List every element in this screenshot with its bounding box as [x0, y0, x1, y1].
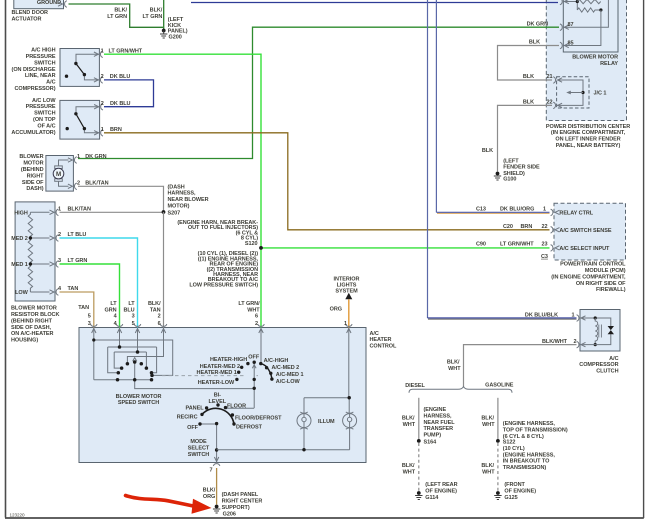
relay coil wire — [563, 2, 577, 11]
control pin ORG — [346, 324, 353, 333]
A/C high pressure switch U-HP box — [60, 49, 99, 87]
svg-text:(ENGINE: (ENGINE — [424, 407, 447, 413]
svg-text:1: 1 — [58, 206, 61, 212]
svg-text:HIGH: HIGH — [14, 210, 28, 216]
resistor block pin number and wire labels — [58, 206, 91, 212]
wire LT GRN resistor MED1 to control — [60, 264, 120, 328]
svg-text:(DASH: (DASH — [168, 184, 185, 190]
svg-text:FIREWALL): FIREWALL) — [596, 287, 626, 293]
node S120 splice — [245, 241, 263, 250]
svg-text:C3: C3 — [541, 254, 548, 260]
svg-text:SPEED SWITCH: SPEED SWITCH — [118, 400, 159, 406]
svg-text:WHT: WHT — [403, 422, 416, 428]
wire ORG interior lights to control — [348, 299, 350, 327]
svg-text:A/C SELECT INPUT: A/C SELECT INPUT — [559, 246, 610, 252]
lamp E2 (right illumination) — [343, 412, 357, 429]
wire LT GRN/WHT from A/C high pressure switch to S120 and control — [104, 54, 261, 327]
lamp bottom rail — [217, 428, 350, 450]
svg-text:LOW: LOW — [15, 290, 29, 296]
svg-text:BI-: BI- — [214, 393, 221, 399]
wire labels C20 BRN 22 — [503, 224, 548, 230]
svg-text:(ENGINE HARNESS,: (ENGINE HARNESS, — [503, 452, 556, 458]
svg-text:87: 87 — [568, 22, 574, 28]
svg-text:A/C HIGH: A/C HIGH — [31, 48, 55, 54]
svg-text:TAN: TAN — [68, 286, 79, 292]
wire BLK relay 85 to J/C1 pin 21 — [498, 46, 560, 81]
svg-text:LT BLU: LT BLU — [68, 232, 87, 238]
svg-text:GROUND: GROUND — [37, 0, 61, 6]
svg-text:BLK/: BLK/ — [447, 360, 460, 366]
wire labels C13 DK BLU/ORG 1 — [476, 207, 546, 213]
ground G206 — [213, 492, 262, 517]
wire BLK/WHT dashed S164 to G114 — [418, 443, 420, 492]
low switch stationary contact — [66, 127, 69, 130]
J/C1 pin 21 — [553, 77, 562, 84]
svg-text:MODULE (PCM): MODULE (PCM) — [585, 268, 626, 274]
motor pin 1 — [68, 157, 77, 164]
svg-text:(LEFT REAR: (LEFT REAR — [425, 482, 457, 488]
svg-text:G206: G206 — [223, 511, 236, 517]
svg-text:C13: C13 — [476, 207, 486, 213]
blower motor relay box — [563, 0, 618, 67]
wire label DK BLU/BLK — [525, 312, 575, 318]
wire DK BLU feed to blower motor relay (top) — [191, 2, 558, 4]
svg-text:RELAY CTRL: RELAY CTRL — [559, 211, 593, 217]
wire label BLK/WHT gasoline upper — [481, 416, 495, 428]
svg-text:6: 6 — [158, 321, 161, 327]
lamp E1 (left illumination) — [297, 412, 311, 429]
svg-text:LT GRN: LT GRN — [68, 258, 88, 264]
wire label BLK/WHT diesel lower — [402, 463, 416, 475]
svg-text:LT GRN/: LT GRN/ — [238, 301, 260, 307]
wire BLK/WHT compressor clutch to split — [464, 345, 577, 387]
svg-text:2: 2 — [77, 181, 80, 187]
svg-text:(BEHIND: (BEHIND — [21, 167, 44, 173]
svg-text:A/C SWITCH SENSE: A/C SWITCH SENSE — [559, 228, 611, 234]
svg-text:(LEFT: (LEFT — [503, 158, 519, 164]
relay pin (coil feed, top) — [560, 0, 569, 5]
svg-text:1: 1 — [101, 48, 104, 54]
svg-text:LT GRN/WHT: LT GRN/WHT — [500, 242, 534, 248]
svg-text:M: M — [56, 171, 61, 178]
resistor R-high-med2 — [28, 212, 32, 238]
control pin LT BLU — [134, 324, 141, 333]
svg-text:RELAY: RELAY — [600, 61, 618, 67]
svg-text:23: 23 — [542, 242, 548, 248]
svg-text:ORG: ORG — [203, 494, 215, 500]
ground G125 — [494, 482, 536, 501]
wire DK GRN relay 87 to blower motor — [78, 27, 559, 158]
svg-text:BLK/WHT: BLK/WHT — [542, 339, 568, 345]
svg-text:BLOWER: BLOWER — [19, 154, 43, 160]
power distribution center dashed box — [546, 0, 630, 149]
motor pin 2 — [68, 183, 77, 190]
control pin 7 (bottom) — [213, 457, 220, 466]
svg-text:ON A/C-HEATER: ON A/C-HEATER — [11, 331, 54, 337]
speed switch wiper arrow — [133, 358, 137, 362]
svg-text:BLK/: BLK/ — [481, 416, 494, 422]
wire BRN from low pressure switch to PCM — [104, 133, 550, 230]
svg-text:2: 2 — [101, 101, 104, 107]
blower motor resistor block box — [15, 202, 55, 301]
svg-text:ACTUATOR: ACTUATOR — [12, 17, 42, 23]
svg-text:GASOLINE: GASOLINE — [485, 382, 514, 388]
svg-text:2: 2 — [101, 74, 104, 80]
J/C 1 junction connector dashed box — [557, 77, 607, 108]
svg-text:2: 2 — [255, 321, 258, 327]
node relay R junction — [599, 8, 602, 11]
wire relay to pin 85 — [563, 10, 601, 46]
svg-text:BRN: BRN — [521, 224, 533, 230]
S120 harness note — [177, 220, 258, 288]
svg-text:5: 5 — [88, 313, 91, 319]
svg-text:SIDE OF DASH,: SIDE OF DASH, — [11, 325, 52, 331]
page frame right border — [643, 0, 645, 518]
svg-text:LT: LT — [110, 301, 117, 307]
rotary contact dots — [235, 361, 273, 390]
svg-text:DK BLU/ORG: DK BLU/ORG — [500, 207, 534, 213]
svg-text:DASH): DASH) — [26, 186, 43, 192]
svg-text:2: 2 — [58, 232, 61, 238]
svg-text:DEFROST: DEFROST — [236, 425, 263, 431]
PCM pin 23 a/c select input — [551, 245, 560, 252]
svg-text:85: 85 — [568, 40, 574, 46]
svg-text:(IN ENGINE COMPARTMENT,: (IN ENGINE COMPARTMENT, — [551, 130, 626, 136]
svg-text:NEAR BLOWER: NEAR BLOWER — [168, 197, 209, 203]
svg-text:LT GRN: LT GRN — [143, 14, 163, 20]
resistor R-med2-med1 — [28, 238, 32, 264]
wire label BLK/WHT diesel upper — [402, 416, 416, 428]
svg-text:BLOWER MOTOR: BLOWER MOTOR — [116, 394, 162, 400]
wire DK BLU between pressure switches — [104, 80, 154, 107]
wire BLK/ORG control pin7 to G206 — [216, 468, 218, 505]
motor wiring — [59, 160, 69, 186]
svg-text:BLK: BLK — [482, 148, 493, 154]
svg-text:(ON DISCHARGE: (ON DISCHARGE — [12, 67, 56, 73]
svg-text:COMPRESSOR: COMPRESSOR — [579, 362, 618, 368]
svg-text:2: 2 — [158, 313, 161, 319]
mode select contact dots — [198, 403, 235, 451]
A/C compressor clutch box — [579, 310, 620, 375]
svg-text:3: 3 — [88, 321, 91, 327]
control pin LT GRN/WHT — [258, 324, 265, 333]
wire BLK/WHT diesel branch to S164 — [418, 398, 420, 441]
svg-text:FLOOR/DEFROST: FLOOR/DEFROST — [235, 415, 282, 421]
wire DK BLU/ORG vertical to PCM relay ctrl — [435, 0, 437, 212]
svg-text:BLK/: BLK/ — [148, 301, 161, 307]
svg-text:RESISTOR BLOCK: RESISTOR BLOCK — [11, 312, 59, 318]
page frame left border — [5, 0, 7, 518]
svg-text:BLK: BLK — [529, 40, 540, 46]
wire DK BLU/BLK vertical to compressor clutch — [427, 0, 429, 318]
A/C heater control box — [79, 328, 366, 463]
high switch pin 1 — [94, 51, 103, 58]
svg-text:LT: LT — [128, 301, 135, 307]
brace diesel/gasoline split — [409, 387, 512, 393]
svg-text:(BEHIND RIGHT: (BEHIND RIGHT — [11, 318, 53, 324]
svg-text:PANEL: PANEL — [186, 405, 205, 411]
svg-text:G100: G100 — [503, 177, 516, 183]
svg-text:3: 3 — [58, 258, 61, 264]
motor pin labels — [77, 154, 107, 160]
svg-text:(ENGINE HARNESS,: (ENGINE HARNESS, — [503, 421, 556, 427]
svg-text:DK BLU: DK BLU — [110, 101, 131, 107]
svg-text:(10 CYL): (10 CYL) — [503, 446, 525, 452]
page frame bottom border — [5, 517, 644, 519]
svg-text:(DASH PANEL: (DASH PANEL — [222, 492, 259, 498]
high switch pin 2 — [94, 77, 103, 84]
svg-text:PRESSURE: PRESSURE — [26, 104, 56, 110]
svg-text:SUPPORT): SUPPORT) — [222, 505, 250, 511]
svg-text:1: 1 — [344, 321, 347, 327]
wire label BLK 22 — [523, 100, 553, 106]
svg-text:MED 2: MED 2 — [11, 236, 28, 242]
wire label BLK/LT GRN (left) — [107, 8, 127, 20]
control pin LT GRN — [116, 324, 123, 333]
motor M1 symbol — [53, 166, 64, 181]
svg-text:HOUSING): HOUSING) — [11, 338, 38, 344]
svg-text:BLK/: BLK/ — [150, 8, 163, 14]
rotary labels — [197, 354, 304, 386]
svg-text:DK GRN: DK GRN — [85, 154, 106, 160]
svg-text:BLK: BLK — [523, 74, 534, 80]
svg-text:BRN: BRN — [110, 127, 122, 133]
svg-text:WHT: WHT — [448, 366, 461, 372]
svg-text:ORG: ORG — [330, 306, 342, 312]
svg-text:LINE, NEAR: LINE, NEAR — [25, 73, 56, 79]
svg-text:PANEL): PANEL) — [168, 29, 188, 35]
mode select labels — [177, 393, 282, 431]
node resistor taps — [29, 236, 32, 239]
A/C low pressure switch box — [60, 100, 100, 139]
svg-text:A/C-MED 1: A/C-MED 1 — [276, 372, 304, 378]
wire relay contact to pin 87 — [563, 0, 608, 27]
svg-text:21: 21 — [546, 74, 552, 80]
svg-text:ACCUMULATOR): ACCUMULATOR) — [11, 130, 55, 136]
wire label BLK/WHT gasoline lower — [481, 463, 495, 475]
high switch wiring — [76, 54, 99, 80]
svg-text:SELECT: SELECT — [188, 446, 210, 452]
wire label BLK/ORG — [203, 488, 216, 500]
svg-text:DK BLU: DK BLU — [110, 74, 131, 80]
wire label BLK/LT GRN (right) — [143, 8, 163, 20]
lamp rail top — [304, 398, 349, 414]
wire BLK/WHT dashed S122 to G125 — [497, 443, 499, 492]
low switch blade — [76, 114, 85, 129]
svg-text:8 CYL): 8 CYL) — [241, 236, 258, 242]
svg-text:RECIRC: RECIRC — [177, 414, 198, 420]
ground G200 — [160, 17, 188, 41]
resistor R1 (relay top) — [577, 0, 600, 4]
svg-text:CLUTCH: CLUTCH — [596, 369, 618, 375]
high switch pin labels — [101, 48, 143, 54]
wire BLK/LT GRN vertical to G200 — [163, 0, 165, 31]
svg-text:ON LEFT INNER FENDER: ON LEFT INNER FENDER — [555, 137, 620, 143]
blower motor resistor block label — [11, 306, 59, 344]
svg-text:LT GRN: LT GRN — [107, 14, 127, 20]
svg-text:MOTOR: MOTOR — [23, 161, 43, 167]
svg-text:1: 1 — [543, 207, 546, 213]
svg-text:G200: G200 — [169, 35, 182, 41]
low switch wiring — [76, 107, 100, 133]
rotary common vertical — [253, 362, 255, 408]
PCM pin 22 a/c switch sense — [551, 227, 560, 234]
svg-text:1: 1 — [77, 154, 80, 160]
node S164 splice — [417, 439, 437, 446]
relay pin 85 — [560, 42, 569, 49]
svg-text:POWERTRAIN CONTROL: POWERTRAIN CONTROL — [560, 262, 626, 268]
svg-text:22: 22 — [546, 100, 552, 106]
svg-text:J/C 1: J/C 1 — [594, 91, 607, 97]
svg-text:A/C-HIGH: A/C-HIGH — [264, 358, 289, 364]
svg-text:BLEND DOOR: BLEND DOOR — [12, 10, 49, 16]
wire BLK J/C1 pin 22 to G100 — [498, 105, 553, 171]
svg-text:WHT: WHT — [403, 470, 416, 476]
low switch pin labels — [101, 101, 131, 107]
rotary wiper feed — [260, 328, 262, 364]
svg-text:DIESEL: DIESEL — [405, 383, 425, 389]
A/C heater control label — [370, 331, 398, 350]
ground G114 — [415, 482, 457, 501]
svg-text:OF ENGINE): OF ENGINE) — [425, 488, 457, 494]
wire BLK/LT GRN from blend door actuator — [69, 4, 164, 27]
wire BLK/TAN S207 down to control — [163, 212, 165, 328]
svg-text:123220: 123220 — [10, 513, 26, 518]
control pin TAN — [91, 324, 98, 333]
wire labels C90 LT GRN/WHT 23 — [476, 242, 548, 248]
svg-text:DK GRN: DK GRN — [527, 21, 548, 27]
svg-text:COMPRESSOR): COMPRESSOR) — [14, 86, 55, 92]
low switch pin 2 — [94, 103, 103, 110]
wire BLK/TAN resistor block pin1 to S207 — [60, 211, 164, 213]
svg-text:HEATER-MED 1: HEATER-MED 1 — [197, 370, 237, 376]
clutch pin 1 — [577, 315, 586, 322]
svg-text:BLK/: BLK/ — [402, 463, 415, 469]
svg-text:PANEL, NEAR BATTERY): PANEL, NEAR BATTERY) — [556, 143, 621, 149]
svg-text:OF A/C: OF A/C — [37, 123, 55, 129]
svg-text:PRESSURE: PRESSURE — [26, 54, 56, 60]
J/C1 tap arrow — [566, 91, 584, 95]
node junction at G200 — [162, 29, 166, 33]
svg-text:TRANSMISSION): TRANSMISSION) — [503, 465, 547, 471]
svg-text:LEVEL: LEVEL — [209, 399, 227, 405]
svg-text:5: 5 — [132, 321, 135, 327]
PCM pin 1 relay ctrl — [551, 209, 560, 216]
svg-text:POWER DISTRIBUTION CENTER: POWER DISTRIBUTION CENTER — [546, 124, 630, 130]
svg-text:SWITCH: SWITCH — [188, 452, 209, 458]
svg-text:FLOOR: FLOOR — [227, 403, 246, 409]
blower motor box — [46, 156, 74, 192]
wire BLK/TAN blower motor to S207 — [78, 186, 164, 212]
svg-text:MOTOR): MOTOR) — [168, 204, 190, 210]
S164 harness note — [424, 407, 456, 439]
wire label BLK/WHT 2 — [542, 339, 577, 345]
high switch blade — [76, 64, 85, 75]
A/C low pressure switch label — [11, 98, 56, 136]
svg-text:HARNESS,: HARNESS, — [168, 191, 197, 197]
svg-text:A/C: A/C — [370, 331, 379, 337]
svg-text:DK BLU/BLK: DK BLU/BLK — [525, 312, 558, 318]
S207 harness note — [168, 184, 209, 209]
blower motor label — [19, 154, 44, 192]
svg-text:WHT: WHT — [482, 422, 495, 428]
low switch pin 1 — [94, 130, 103, 137]
svg-text:1: 1 — [101, 127, 104, 133]
J/C1 bus wire — [557, 80, 583, 105]
wire ORG inside to lamps — [348, 328, 350, 398]
svg-text:INTERIOR: INTERIOR — [334, 276, 360, 282]
A/C high pressure switch label — [12, 48, 56, 92]
control pin BLK/TAN — [160, 324, 167, 333]
svg-text:WHT: WHT — [247, 308, 260, 314]
svg-text:1: 1 — [571, 312, 574, 318]
wire LT GRN/WHT branch S120 to PCM A/C select input — [261, 247, 550, 249]
svg-text:BLK/: BLK/ — [114, 8, 127, 14]
svg-text:BLOWER MOTOR: BLOWER MOTOR — [11, 306, 57, 312]
svg-text:LT GRN/WHT: LT GRN/WHT — [109, 48, 143, 54]
svg-text:FENDER SIDE: FENDER SIDE — [503, 165, 540, 171]
svg-text:SWITCH: SWITCH — [34, 60, 55, 66]
svg-text:(IN ENGINE COMPARTMENT,: (IN ENGINE COMPARTMENT, — [551, 274, 626, 280]
svg-text:HEATER-LOW: HEATER-LOW — [198, 380, 235, 386]
clutch coil L1 — [580, 316, 614, 346]
resistor block row labels — [11, 210, 28, 296]
svg-text:BLK: BLK — [523, 100, 534, 106]
svg-text:PUMP): PUMP) — [424, 433, 442, 439]
mechanical linkage dashed — [162, 375, 258, 377]
svg-text:SWITCH: SWITCH — [34, 111, 55, 117]
svg-text:7: 7 — [209, 467, 212, 473]
wire BLK/WHT gasoline branch to S122 — [497, 398, 499, 441]
wire TAN resistor LOW to control — [60, 292, 94, 328]
resistor R2 (relay) — [577, 8, 601, 12]
svg-text:TOP OF TRANSMISSION): TOP OF TRANSMISSION) — [503, 428, 568, 434]
mode select output — [216, 424, 218, 463]
svg-text:S120: S120 — [245, 241, 258, 247]
svg-text:A/C-MED 2: A/C-MED 2 — [272, 365, 300, 371]
speed switch wiring — [94, 328, 254, 389]
svg-text:LOW PRESSURE SWITCH): LOW PRESSURE SWITCH) — [189, 282, 258, 288]
high switch stationary contact — [65, 75, 68, 78]
svg-text:A/C-LOW: A/C-LOW — [276, 379, 301, 385]
svg-text:BLK/TAN: BLK/TAN — [68, 206, 91, 212]
powertrain control module PCM dashed box — [551, 203, 626, 293]
svg-text:RIGHT: RIGHT — [27, 173, 45, 179]
svg-text:S164: S164 — [424, 440, 438, 446]
svg-text:C20: C20 — [503, 224, 513, 230]
node S207 splice — [162, 210, 181, 216]
svg-text:TRANSFER: TRANSFER — [424, 426, 454, 432]
blend door actuator box — [14, 0, 67, 9]
svg-text:HEATER-HIGH: HEATER-HIGH — [210, 357, 247, 363]
svg-text:G125: G125 — [504, 495, 517, 501]
svg-text:BLK/TAN: BLK/TAN — [85, 181, 108, 187]
mode select off contact wire — [200, 423, 217, 425]
svg-text:SIDE OF: SIDE OF — [22, 180, 44, 186]
wire LT BLU resistor MED2 to control — [60, 238, 138, 328]
node relay coil junction — [576, 0, 579, 3]
svg-text:MED 1: MED 1 — [11, 262, 28, 268]
svg-text:2: 2 — [573, 339, 576, 345]
interior lights system arrow — [334, 276, 360, 299]
svg-text:A/C: A/C — [46, 80, 55, 86]
relay pin 87 — [560, 24, 569, 31]
svg-text:BLK/: BLK/ — [203, 488, 216, 494]
svg-text:HARNESS,: HARNESS, — [424, 413, 453, 419]
J/C1 pin 22 — [553, 102, 562, 109]
svg-text:NEAR FUEL: NEAR FUEL — [424, 420, 456, 426]
svg-text:A/C LOW: A/C LOW — [32, 98, 56, 104]
